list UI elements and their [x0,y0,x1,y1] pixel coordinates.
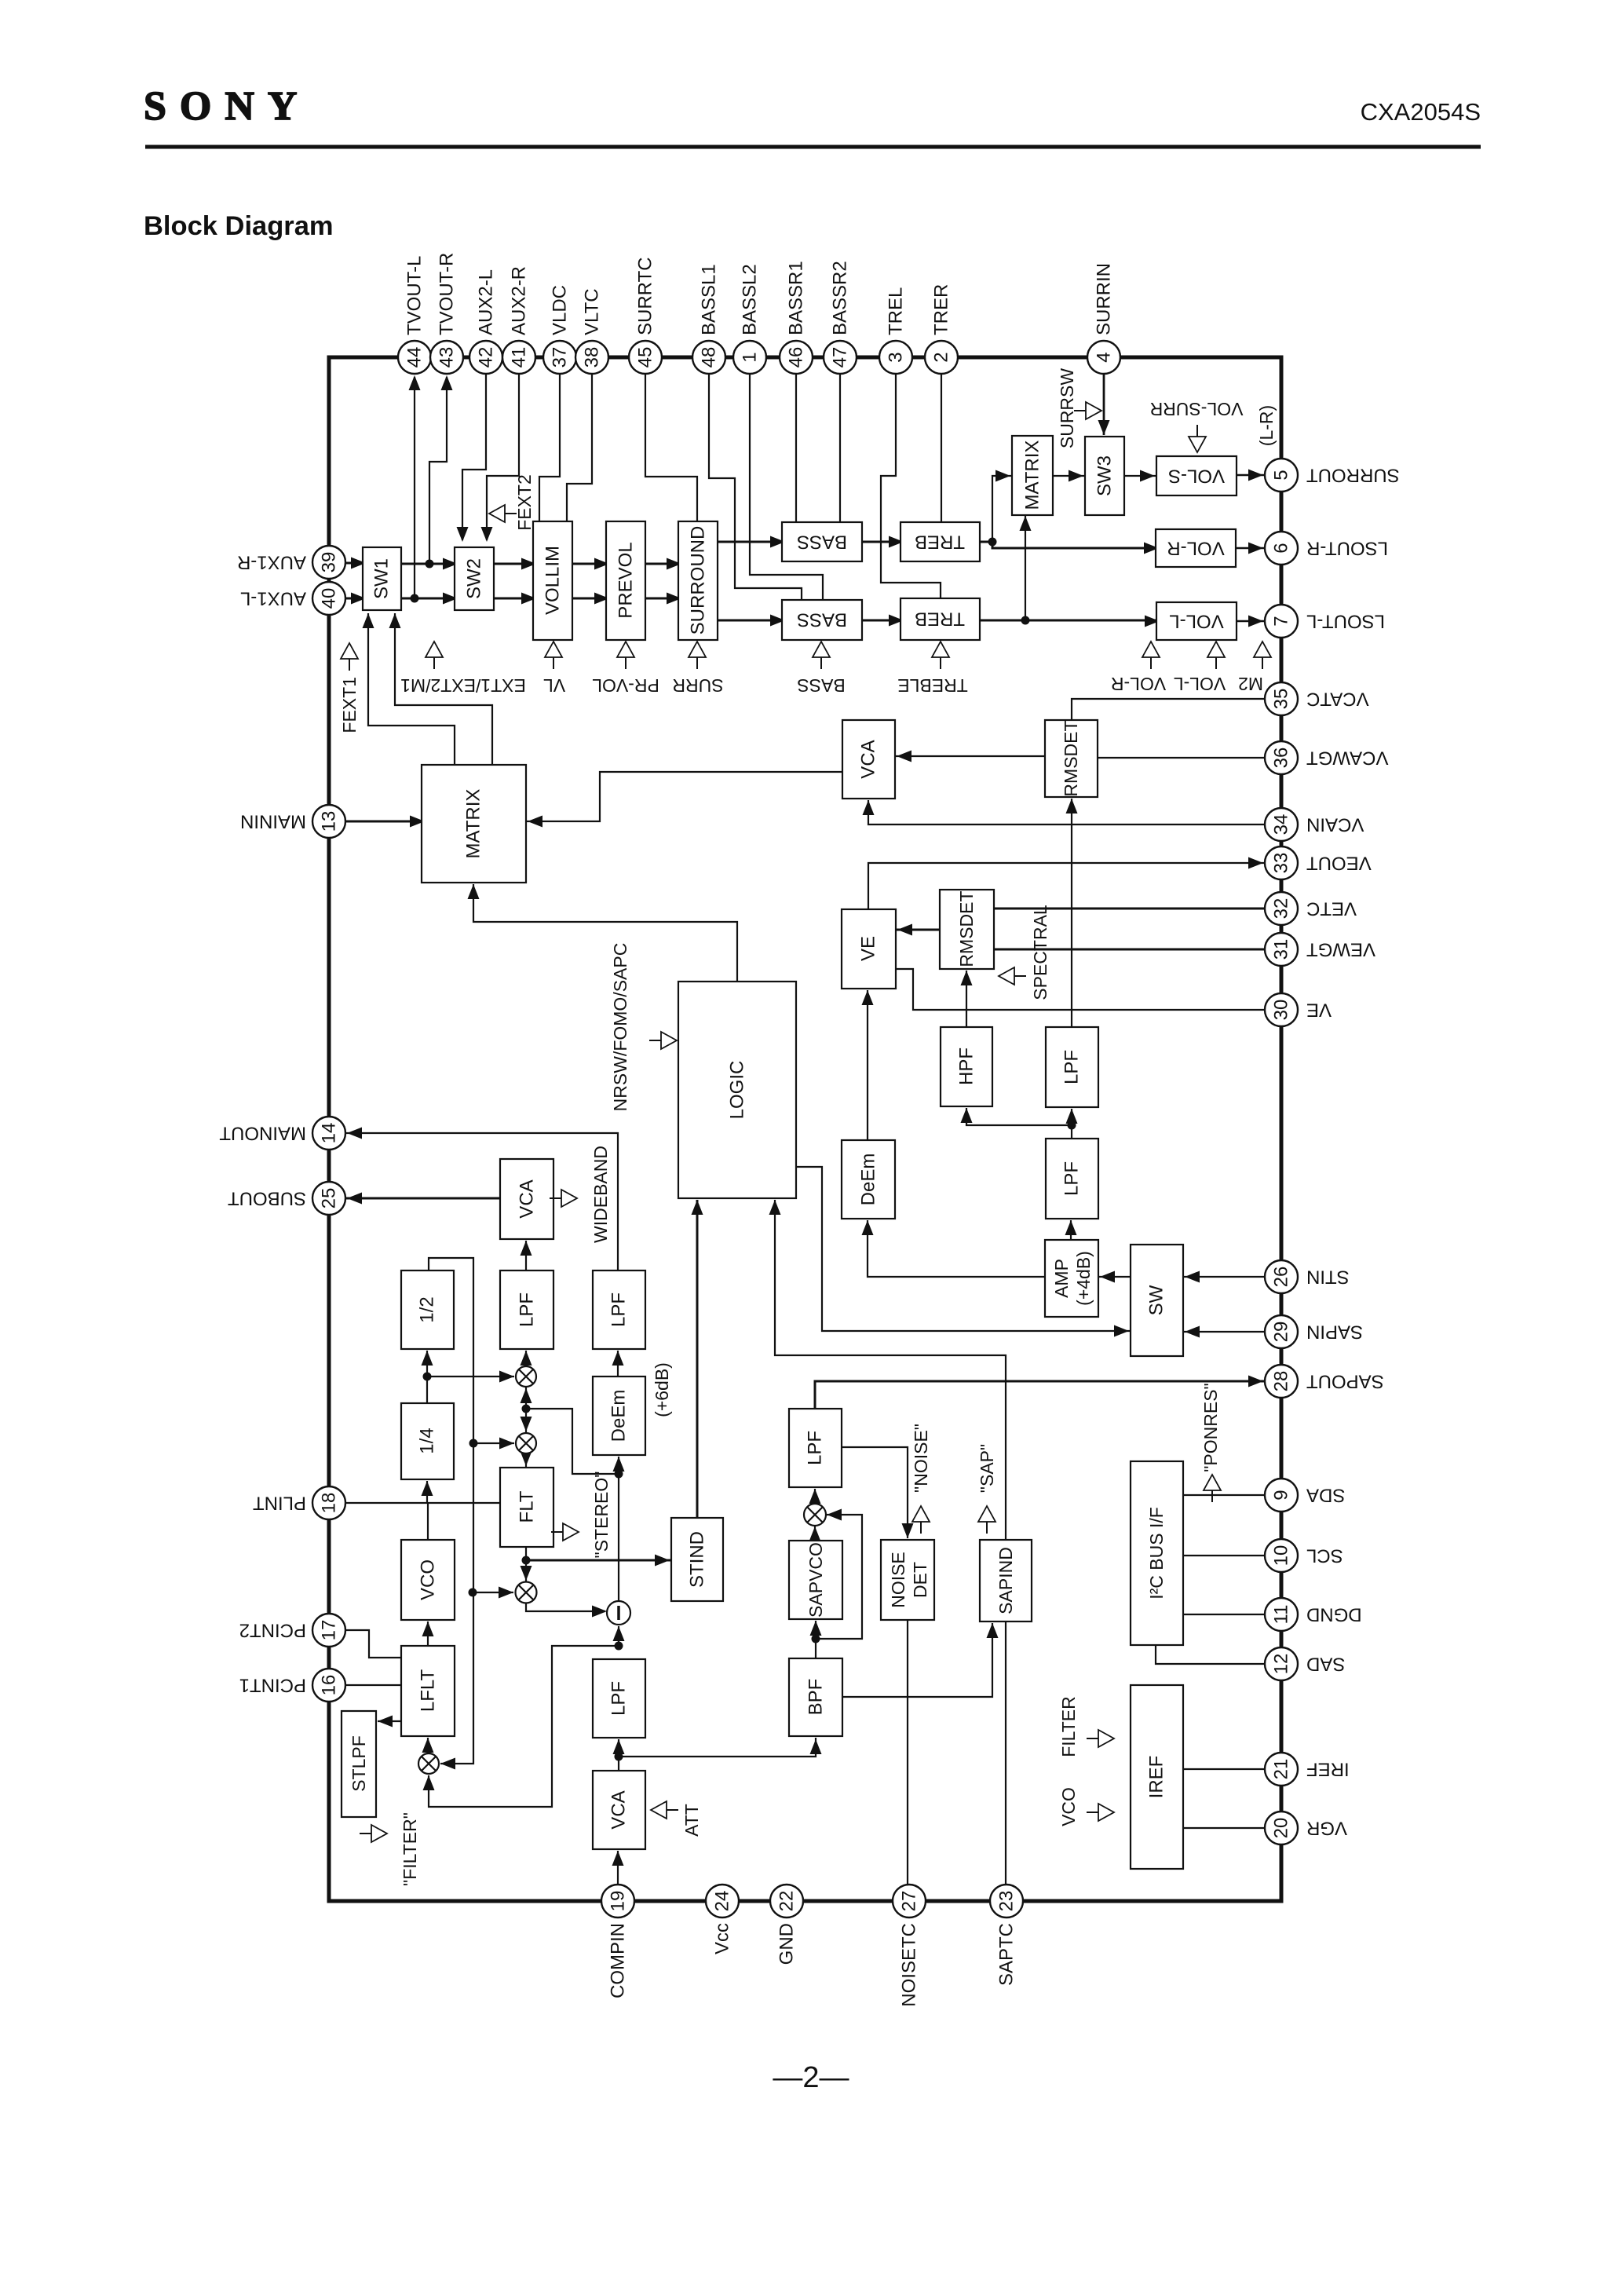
IC body outline [329,357,1281,1901]
pin 20 VGR [1265,1812,1298,1844]
block STIND [671,1518,723,1601]
wire pin48 BASSL1 [709,374,802,600]
wire VCA sub to pin25 SUBOUT [345,1197,500,1200]
svg-text:FEXT1: FEXT1 [339,677,360,733]
junction dot mult5 in [469,1589,477,1597]
svg-text:MATRIX: MATRIX [1022,441,1043,510]
svg-text:RMSDET: RMSDET [956,890,977,967]
control TREBLE [932,642,949,657]
svg-text:CXA2054S: CXA2054S [1361,98,1481,126]
wire to pin44 TVOUT-L [414,377,415,598]
wire SW3 to VOL-S [1124,475,1156,477]
pin 10 SCL [1265,1539,1298,1572]
junction dot FLT out [522,1556,531,1565]
pin 22 GND [770,1885,803,1918]
svg-text:48: 48 [699,347,720,368]
control VL [545,642,562,657]
wire LFLT to STLPF [378,1720,401,1722]
svg-text:LFLT: LFLT [418,1669,439,1713]
svg-text:3: 3 [886,352,907,362]
svg-text:MAINOUT: MAINOUT [219,1123,306,1144]
multiplier mult5 [516,1582,537,1603]
svg-text:SURR: SURR [672,675,723,696]
block TREB right ch [901,522,980,561]
wire PREVOL to SURROUND upper [645,563,678,565]
wire mult1 to LPF sub [525,1351,527,1366]
wire VCA to MATRIX1 [526,772,842,821]
svg-text:37: 37 [550,347,571,368]
svg-text:SAPTC: SAPTC [996,1923,1017,1986]
pin 30 VE [1265,993,1298,1026]
block LOGIC [678,982,796,1198]
wire VCA comp to BPF [619,1738,816,1757]
svg-text:VOL-R: VOL-R [1167,538,1224,559]
wire TREB L to MATRIX2 [1025,516,1026,620]
wire MATRIX2 to SW3 [1053,475,1085,477]
pin 48 BASSL1 [692,341,725,374]
wire mult5 to subtractor [526,1603,605,1611]
wire I2C to pin9 SDA [1183,1494,1265,1496]
svg-text:DeEm: DeEm [858,1153,879,1206]
svg-text:25: 25 [319,1188,340,1209]
svg-text:9: 9 [1271,1490,1292,1500]
junction dot lower [411,594,419,603]
svg-text:LSOUT-L: LSOUT-L [1306,611,1385,632]
header rule [145,145,1481,149]
svg-text:(+6dB): (+6dB) [652,1362,672,1417]
svg-text:"STEREO": "STEREO" [591,1472,612,1559]
wire LOGIC to MATRIX1 (NRSW/FOMO/SAPC) [473,884,737,982]
svg-text:28: 28 [1271,1371,1292,1392]
block IREF [1131,1685,1183,1869]
wire LPF2 to HPF [966,1108,1072,1125]
pin 45 SURRTC [629,341,662,374]
wire pin4 SURRIN to SW3 [1103,374,1105,435]
svg-text:VCA: VCA [517,1179,538,1218]
wire LPF sub to VCA sub [525,1241,527,1270]
wire mult link to DeEm line [526,1409,619,1474]
svg-text:VGR: VGR [1306,1818,1347,1839]
svg-text:27: 27 [899,1891,920,1912]
block VOLLIM [533,521,572,640]
svg-text:BASSL2: BASSL2 [740,264,761,335]
svg-text:1: 1 [740,352,761,362]
svg-text:6: 6 [1271,543,1292,553]
multiplier mult4 [804,1504,826,1526]
wire mult2 to FLT [525,1453,527,1468]
block VCA sub [500,1159,553,1239]
pin 25 SUBOUT [312,1182,345,1215]
block PREVOL [606,521,645,640]
pin 11 DGND [1265,1598,1298,1631]
multiplier mult1 [516,1366,536,1387]
svg-text:BASSR2: BASSR2 [830,261,851,335]
svg-text:VCAIN: VCAIN [1306,814,1364,835]
wire BASS to TREB R [862,541,901,543]
svg-text:32: 32 [1271,898,1292,919]
wire LPF2 to LPF1 [1071,1109,1072,1139]
wire pin16 PCINT1 to LFLT [345,1684,401,1686]
svg-text:FLT: FLT [517,1490,538,1523]
wire PREVOL to SURROUND lower [645,598,678,600]
wire DeEm6 to LPF wideband [617,1351,619,1377]
pin 14 MAINOUT [312,1117,345,1150]
svg-text:PCINT1: PCINT1 [239,1675,306,1696]
wire VOL-L to pin7 [1237,620,1265,622]
svg-text:TRER: TRER [931,284,952,335]
block LPF sub [500,1270,553,1349]
svg-text:VE: VE [858,936,879,961]
svg-text:VOL-L: VOL-L [1174,674,1226,694]
control PR-VOL [617,642,634,657]
wire BASS to TREB L [862,620,901,622]
svg-text:VOLLIM: VOLLIM [542,546,564,615]
svg-text:FILTER: FILTER [1058,1696,1079,1757]
control SPECTRAL [999,967,1014,985]
svg-text:42: 42 [476,347,497,368]
svg-text:STLPF: STLPF [349,1735,369,1792]
pin 19 COMPIN [601,1885,634,1918]
wire SW1 to SW2 lower [401,598,455,600]
control VOL-SURR [1189,437,1206,452]
svg-text:NRSW/FOMO/SAPC: NRSW/FOMO/SAPC [610,943,630,1112]
pin 13 MAININ [312,805,345,838]
pin 12 SAD [1265,1647,1298,1680]
svg-text:VOL-SURR: VOL-SURR [1150,399,1244,419]
pin 9 SDA [1265,1479,1298,1512]
wire pin19 COMPIN to VCA comp [617,1851,619,1885]
pin 33 VEOUT [1265,846,1298,879]
control VOL-L [1207,642,1225,657]
block VOL-S [1156,456,1237,495]
wire RMSDET2 to pin31 VEWGT [994,949,1265,951]
svg-text:34: 34 [1271,814,1292,835]
wire DeEm to VE [867,990,868,1140]
svg-text:"PONRES": "PONRES" [1200,1383,1221,1472]
svg-text:46: 46 [786,347,807,368]
wire SW2 to VOLLIM lower [494,598,533,600]
wire mult4 to LPF sap [814,1489,816,1504]
svg-text:STIN: STIN [1306,1267,1350,1288]
pin 44 TVOUT-L [398,341,431,374]
wire pin35 VCATC to RMSDET1 [1072,699,1265,720]
svg-text:21: 21 [1271,1759,1292,1780]
block LFLT [401,1646,455,1736]
svg-text:SPECTRAL: SPECTRAL [1030,905,1050,1000]
pin 6 LSOUT-R [1265,532,1298,565]
svg-text:44: 44 [404,347,426,368]
wire pilot loop to mult5 [473,1592,513,1593]
wire LPF comp tap to mult3 [429,1646,619,1807]
svg-text:VCAWGT: VCAWGT [1306,748,1389,769]
svg-text:AUX1-R: AUX1-R [237,552,306,573]
block VCA wgt [842,720,895,799]
pin 37 VLDC [543,341,576,374]
control FEXT2 [489,505,505,522]
svg-text:IREF: IREF [1146,1756,1167,1799]
block DeEm 6dB [593,1377,645,1455]
wire pin37 VLDC to VOLLIM [539,374,560,521]
svg-text:BASSL1: BASSL1 [699,264,720,335]
svg-text:47: 47 [830,347,851,368]
svg-text:41: 41 [509,347,530,368]
block VE [842,909,896,989]
block AMP +4dB [1045,1240,1098,1317]
svg-text:(L-R): (L-R) [1256,405,1277,446]
svg-text:VLTC: VLTC [582,288,603,335]
svg-text:FEXT2: FEXT2 [514,474,535,531]
svg-text:AUX2-R: AUX2-R [509,266,530,335]
block RMSDET vca [1045,720,1098,797]
svg-text:TREB: TREB [915,609,965,630]
svg-text:SONY: SONY [144,84,310,129]
wire RMSDET2 to pin32 VETC [994,908,1265,910]
wire to mult2 [473,1442,514,1444]
block MATRIX main [422,765,526,883]
svg-text:TREB: TREB [915,532,965,553]
svg-text:GND: GND [776,1923,798,1965]
svg-text:LOGIC: LOGIC [727,1061,748,1120]
svg-text:LSOUT-R: LSOUT-R [1306,538,1388,559]
junction dot BPF out [812,1635,820,1643]
svg-text:(+4dB): (+4dB) [1073,1251,1094,1306]
block BPF [789,1658,842,1736]
svg-text:BASSR1: BASSR1 [786,261,807,335]
svg-text:SURRTC: SURRTC [635,257,656,335]
svg-text:VOL-S: VOL-S [1168,466,1225,487]
pin 7 LSOUT-L [1265,605,1298,638]
svg-text:BASS: BASS [797,675,845,696]
wire VCO to pilot line [427,1503,429,1540]
svg-text:LPF: LPF [608,1292,630,1327]
wire SURROUND to BASS R [718,541,782,543]
svg-text:COMPIN: COMPIN [608,1923,629,1998]
pin 32 VETC [1265,892,1298,925]
svg-text:"FILTER": "FILTER" [400,1812,420,1886]
block 1/2 divider [401,1270,454,1349]
wire pin18 PLINT to FLT [345,1502,500,1504]
control SURR [689,642,706,657]
control FEXT1 [341,643,358,659]
svg-text:SUBOUT: SUBOUT [228,1188,306,1209]
svg-text:VLDC: VLDC [550,285,571,335]
wire TREB L to VOL-L [980,620,1156,622]
svg-text:18: 18 [319,1493,340,1514]
svg-text:10: 10 [1271,1545,1292,1567]
pin 34 VCAIN [1265,808,1298,841]
block LPF comp [593,1659,645,1738]
pin 38 VLTC [575,341,608,374]
block SW2 [455,547,494,610]
wire LFLT to VCO [427,1621,429,1646]
svg-text:WIDEBAND: WIDEBAND [590,1146,611,1243]
block MATRIX output [1012,436,1053,515]
svg-text:STIND: STIND [687,1531,708,1588]
pin 1 BASSL2 [733,341,766,374]
pin 31 VEWGT [1265,933,1298,966]
pin 36 VCAWGT [1265,741,1298,774]
wire RMSDET1 to pin36 VCAWGT [1098,757,1265,759]
wire pin39 to SW1 [345,562,363,565]
svg-text:17: 17 [319,1620,340,1641]
block LPF ve1 [1046,1027,1098,1107]
wire SAPVCO to mult4 [814,1526,816,1541]
pin 23 SAPTC [990,1885,1023,1918]
wire pin3 TREL [881,374,941,598]
wire pilot to mult1 [427,1376,514,1377]
svg-text:SAPIND: SAPIND [995,1547,1016,1614]
wire TREB R to VOL-R [980,542,1156,548]
svg-text:LPF: LPF [1061,1161,1083,1196]
svg-text:PCINT2: PCINT2 [239,1620,306,1641]
block SW1 [363,547,401,610]
wire LPF wideband to pin14 MAINOUT [345,1133,618,1270]
wire RMSDET2 to VE [896,929,940,931]
control FILTER pll [371,1825,387,1842]
block 1/4 divider [401,1403,454,1479]
junction dot LPF comp out [615,1642,623,1651]
block LPF sap [789,1409,842,1487]
block SAPIND [980,1540,1032,1621]
control SAP [978,1506,995,1522]
svg-text:IREF: IREF [1306,1759,1350,1780]
svg-text:11: 11 [1271,1605,1292,1625]
control M2 [1254,642,1271,657]
pin 21 IREF [1265,1753,1298,1786]
wire pin46 BASSR1 [795,374,797,522]
svg-text:LPF: LPF [517,1292,538,1327]
multiplier mult3 [418,1753,439,1774]
junction dot VCA comp out [615,1753,623,1761]
svg-text:TREBLE: TREBLE [897,675,967,696]
block I2C BUS I/F [1131,1461,1183,1645]
svg-text:SW2: SW2 [464,558,485,599]
svg-text:36: 36 [1271,748,1292,769]
wire pin13 MAININ to MATRIX1 [345,821,422,823]
wire pin17 PCINT2 to LFLT [345,1630,401,1658]
svg-text:2: 2 [931,352,952,362]
svg-text:VL: VL [543,675,565,696]
control BASS [813,642,830,657]
svg-text:DGND: DGND [1306,1604,1362,1625]
svg-text:4: 4 [1094,352,1115,362]
wire pin1 BASSL2 [750,374,823,600]
svg-text:VCATC: VCATC [1306,689,1369,710]
block VCO [401,1540,455,1620]
svg-text:VCA: VCA [608,1790,630,1829]
svg-text:M2: M2 [1238,674,1263,694]
wire pin47 BASSR2 [839,374,841,522]
svg-text:VCO: VCO [418,1559,439,1600]
svg-text:LPF: LPF [608,1681,630,1716]
svg-text:43: 43 [437,347,458,368]
pin 26 STIN [1265,1260,1298,1293]
control EXT1/EXT2/M1 [426,642,443,657]
wire AMP to DeEm [868,1220,1045,1277]
block SW3 [1085,437,1124,515]
svg-text:MATRIX: MATRIX [463,789,484,859]
block FLT [500,1468,553,1547]
svg-text:RMSDET: RMSDET [1061,720,1081,796]
block STLPF [342,1711,376,1817]
wire pin38 VLTC to VOLLIM [567,374,592,521]
wire VOL-S to pin5 [1237,474,1265,476]
svg-text:38: 38 [582,347,603,368]
control NRSW/FOMO/SAPC [661,1032,677,1049]
wire VCA comp to LPF comp [618,1739,619,1771]
junction dot TREB R [988,538,997,547]
pin 2 TRER [925,341,958,374]
svg-text:22: 22 [776,1891,798,1912]
block RMSDET ve [940,890,994,969]
pin 16 PCINT1 [312,1669,345,1702]
wire LPF to RMSDET1 [1071,799,1072,1027]
wire pilot chain to 1/4 [426,1481,428,1503]
svg-text:PREVOL: PREVOL [616,542,637,618]
block VOL-R [1156,529,1236,567]
pin 46 BASSR1 [780,341,813,374]
svg-text:TVOUT-L: TVOUT-L [404,256,426,335]
wire pin2 TRER [941,374,942,522]
svg-text:35: 35 [1271,689,1292,710]
svg-text:24: 24 [712,1891,733,1912]
wire pin42 to SW2 [462,374,486,540]
wire BPF tap to mult4 [816,1515,862,1639]
wire subtract to DeEm6 [618,1457,619,1600]
svg-text:33: 33 [1271,853,1292,874]
svg-text:7: 7 [1271,616,1292,626]
svg-text:26: 26 [1271,1267,1292,1288]
multiplier mult2 [516,1433,536,1453]
wire SW2 to VOLLIM upper [494,563,533,565]
svg-text:1/4: 1/4 [417,1428,438,1453]
wire I2C to pin10 SCL [1183,1555,1265,1556]
svg-text:Block Diagram: Block Diagram [144,211,334,241]
svg-text:VCA: VCA [858,740,879,778]
wire VE to pin33 VEOUT [868,863,1265,909]
wire VOLLIM to PREVOL lower [572,598,606,600]
wire SAPIND to pin23 SAPTC [1005,1621,1006,1885]
svg-text:1/2: 1/2 [417,1296,438,1322]
block DeEm ve [842,1140,895,1219]
wire VE to pin30 VE [896,969,1265,1010]
pin 5 SURROUT [1265,459,1298,492]
svg-text:BASS: BASS [797,609,847,631]
svg-text:LPF: LPF [1061,1050,1083,1084]
wire BPF to SAPVCO [815,1621,816,1658]
svg-text:SW: SW [1146,1285,1167,1315]
svg-text:SW1: SW1 [371,558,393,599]
wire FLT out down [525,1547,527,1581]
wire to pin43 TVOUT-R [429,377,447,564]
svg-text:"SAP": "SAP" [977,1444,997,1493]
svg-text:AUX2-L: AUX2-L [476,269,497,335]
wire BPF to SAPIND [842,1623,992,1697]
control VCO iref [1098,1804,1114,1821]
junction dot mult2 in [469,1439,478,1448]
svg-text:—2—: —2— [773,2061,849,2094]
wire pin26 STIN to SW [1183,1276,1265,1278]
svg-text:20: 20 [1271,1818,1292,1839]
svg-text:VEWGT: VEWGT [1306,939,1375,960]
subtractor circle [607,1601,630,1625]
svg-text:NOISETC: NOISETC [899,1923,920,2007]
block HPF [941,1027,992,1106]
svg-text:BPF: BPF [806,1679,827,1716]
wire SURROUND to BASS L [718,620,782,622]
wire I2C to pin12 SAD [1156,1645,1265,1664]
pin 42 AUX2-L [469,341,502,374]
